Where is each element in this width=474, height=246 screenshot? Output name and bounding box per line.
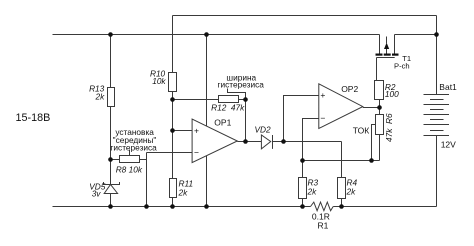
wire: R13 bottom lead to VD5 (110, 107, 112, 185)
wire: ground rail left section (53, 206, 311, 208)
junction: ground rail / R11 (170, 204, 175, 209)
junction: TOK stub on sense node (369, 158, 374, 163)
wire: battery positive lead (436, 35, 438, 95)
wire: current sense node horizontal (303, 160, 380, 162)
wire: node to R12 left (173, 99, 219, 101)
junction: VD2 cathode / OP2 + node (281, 139, 286, 144)
svg-text:15-18В: 15-18В (16, 112, 51, 124)
wire: VD5 anode to ground rail (110, 194, 112, 207)
resistor R2 body (375, 81, 384, 100)
svg-text:ТОК: ТОК (353, 125, 369, 135)
svg-text:12V: 12V (441, 139, 456, 149)
wire: R3 bottom lead to ground rail (302, 199, 304, 207)
wire: ground rail right section (333, 206, 436, 208)
junction: ground rail / VD5 (108, 204, 113, 209)
wire: 15-18V input rail (53, 34, 380, 36)
resistor R4 body (338, 178, 346, 199)
svg-text:2k: 2k (307, 186, 318, 196)
junction: R10 / R12 / R11 divider node (170, 97, 175, 102)
wire: drop from top feed to battery node (436, 16, 438, 35)
svg-text:R1: R1 (318, 221, 329, 231)
wire: OP1 positive supply pin (206, 35, 208, 127)
transistor T1 drain/source/body bars (376, 54, 383, 56)
zener VD5 anode triangle (104, 185, 117, 194)
junction: input rail / OP1 V+ (204, 32, 209, 37)
wire: R13 top lead (110, 35, 112, 89)
resistor R3 body (299, 178, 307, 199)
wire: R10 riser from top feed (172, 16, 174, 73)
svg-text:+: + (320, 90, 325, 100)
junction: OP2 output / R2 / R6 node (377, 105, 382, 110)
junction: input rail / R13 (108, 32, 113, 37)
wire: R2 bottom lead to OP2 output node (379, 100, 381, 108)
svg-text:OP2: OP2 (341, 84, 358, 94)
wire: T1 source drop (379, 35, 381, 54)
svg-text:3v: 3v (92, 189, 102, 199)
wire: R12 feedback vertical to OP1 output (245, 100, 247, 142)
diode VD2 cathode bar (272, 135, 274, 149)
wire: TOK test stub (372, 125, 377, 161)
wire: OP1 output (237, 141, 261, 143)
op-amp OP2 triangle (319, 84, 363, 129)
wire: R11 bottom lead to ground rail (172, 198, 174, 207)
leader line: hysteresis middle label to R8 (129, 150, 131, 156)
resistor R11 body (170, 179, 177, 198)
junction: ground rail / R3 (300, 204, 305, 209)
wire: riser to OP2 non-inverting input (284, 96, 319, 142)
svg-text:VD2: VD2 (255, 124, 272, 134)
wire: VD2 cathode to R4 corner (273, 141, 342, 143)
wire: T1 drain to battery node (395, 34, 437, 36)
wire: OP1 inverting input to ground rail (146, 153, 148, 207)
wire: divider node down to R11 (172, 100, 174, 179)
junction: ground rail / OP1 V- (204, 204, 209, 209)
junction: OP2 inverting / sense node (300, 158, 305, 163)
transistor T1 substrate arrow (386, 37, 388, 44)
wire: OP2 output (363, 107, 380, 109)
svg-text:OP1: OP1 (214, 117, 231, 127)
svg-text:−: − (320, 113, 325, 123)
wire: T1 drain riser (394, 35, 396, 54)
wire: R6 top lead (379, 108, 381, 115)
wire: R6 bottom lead (379, 135, 381, 161)
wire: OP1 inverting input (147, 152, 193, 154)
resistor R8 body (120, 156, 140, 163)
op-amp OP1 triangle (192, 119, 237, 163)
junction: R12 right / feedback (243, 97, 248, 102)
svg-text:R12 47k: R12 47k (211, 103, 245, 113)
svg-text:+: + (194, 126, 199, 136)
wire: R3 top lead (302, 161, 304, 178)
resistor R1 0.1R shunt zigzag (311, 202, 334, 211)
svg-text:гистерезиса: гистерезиса (218, 79, 265, 89)
wire: R8 right lead (140, 159, 147, 161)
svg-text:10k: 10k (152, 76, 166, 86)
wire: OP1 non-inverting input (173, 130, 193, 132)
wire: T1 gate lead to R2 (376, 58, 378, 81)
svg-text:R8 10k: R8 10k (116, 165, 143, 175)
resistor R6 body (376, 115, 384, 135)
junction: R13 / VD5 / R8 node (108, 157, 113, 162)
junction: ground rail / R4 (339, 204, 344, 209)
wire: R4 top lead (341, 142, 343, 178)
wire: R10 bottom lead (172, 92, 174, 100)
junction: OP1 output node (243, 139, 248, 144)
junction: ground rail / OP1 inverting drop (144, 204, 149, 209)
diode VD2 anode triangle (261, 135, 270, 149)
junction: OP1 non-inverting input tap (170, 128, 175, 133)
wire: OP1 negative supply pin to ground rail (206, 156, 208, 207)
svg-text:Bat1: Bat1 (439, 82, 457, 92)
zener VD5 cathode bar (104, 182, 120, 185)
wire: battery negative lead to ground rail (436, 136, 438, 207)
svg-text:2k: 2k (178, 187, 189, 197)
resistor R13 body (108, 88, 115, 107)
wire: R4 bottom lead to ground rail (341, 199, 343, 207)
leader line: hysteresis width label to R12 node (228, 89, 246, 100)
svg-text:47k R6: 47k R6 (384, 113, 394, 142)
resistor R10 body (169, 73, 177, 92)
wire: top horizontal feed (battery side) (173, 15, 437, 17)
battery Bat1 plates (424, 95, 450, 136)
transistor T1 gate bar (377, 57, 395, 59)
wire: R8 left lead (111, 159, 120, 161)
svg-text:2k: 2k (346, 186, 357, 196)
svg-text:2k: 2k (95, 92, 106, 102)
wire: R12 right lead (239, 99, 246, 101)
svg-text:гистерезиса: гистерезиса (110, 143, 157, 153)
junction: battery positive node (434, 32, 439, 37)
svg-text:P-ch: P-ch (394, 61, 410, 70)
svg-text:−: − (194, 147, 199, 157)
wire: OP2 inverting input (303, 119, 319, 161)
resistor R12 body (219, 96, 239, 103)
svg-text:100: 100 (385, 89, 399, 99)
